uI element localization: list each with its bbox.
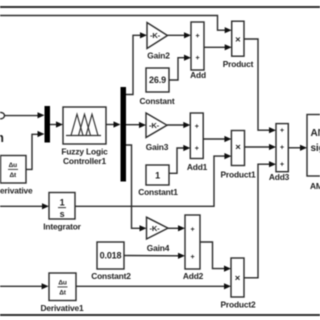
block Add1 (190, 113, 203, 159)
svg-text:Add2: Add2 (183, 271, 204, 281)
svg-text:-K-: -K- (150, 31, 161, 40)
svg-text:1: 1 (60, 198, 65, 208)
svg-text:Gain4: Gain4 (147, 243, 170, 253)
block Derivative1 (49, 273, 76, 301)
svg-text:s: s (60, 209, 65, 219)
demux bar2 (121, 87, 127, 182)
svg-text:26.9: 26.9 (149, 75, 166, 85)
block Constant2 (97, 242, 124, 269)
wire into Derivative1 (0, 285, 43, 287)
block Product2 (231, 258, 244, 297)
arrowhead into Integrator (42, 203, 49, 209)
svg-text:Product: Product (223, 59, 254, 69)
arrowhead into Product1 in1 (224, 136, 231, 142)
svg-text:+: + (196, 33, 200, 40)
plus signs Add3 (280, 128, 284, 169)
arrowhead into Product2 in2 (224, 283, 231, 289)
arrowhead into Add in1 (184, 32, 191, 38)
arrowhead into Add3 in2 (269, 144, 276, 150)
wire to Product in1 (0, 16, 227, 31)
svg-text:Δu: Δu (9, 162, 18, 169)
text Integrator 1/s (60, 198, 65, 220)
svg-text:-K-: -K- (149, 121, 160, 130)
svg-text:Gain3: Gain3 (146, 142, 169, 152)
wire Demux out1 to Gain2 (126, 35, 142, 94)
arrowhead into Add2 in2 (178, 253, 185, 259)
wire Derivative1 to Product2 in2 (76, 285, 226, 287)
plus signs Add (196, 33, 200, 62)
svg-text:+: + (196, 55, 200, 62)
svg-text:Gain2: Gain2 (147, 51, 170, 61)
wire Gain2 to Add in1 (168, 34, 186, 36)
svg-text:Product2: Product2 (220, 300, 256, 310)
arrowhead into Add in2 (184, 55, 191, 61)
svg-text:+: + (280, 128, 284, 135)
svg-text:+: + (195, 146, 199, 153)
plus signs Add2 (191, 226, 195, 260)
svg-text:Add1: Add1 (187, 162, 208, 172)
wire Integrator to Product1 in2 (75, 156, 226, 206)
svg-text:Constant2: Constant2 (91, 271, 131, 281)
svg-text:0.018: 0.018 (100, 250, 122, 260)
block Fuzzy Logic Controller1 (63, 107, 106, 144)
svg-text:Derivative1: Derivative1 (40, 303, 84, 313)
wire Gain3 to Add1 in1 (167, 124, 185, 126)
arrowhead into Gain2 (140, 32, 147, 38)
svg-text:Derivative: Derivative (0, 185, 33, 195)
block Constant 26.9 (146, 68, 169, 92)
svg-text:×: × (235, 142, 241, 153)
block Add3 (276, 124, 288, 172)
arrowhead into Gain3 (139, 122, 146, 128)
svg-text:Product1: Product1 (220, 169, 256, 179)
gain Gain3 (146, 113, 167, 138)
svg-text:Add: Add (190, 70, 206, 80)
arrowhead into Product in1 (225, 27, 232, 33)
arrowhead into Fuzzy (56, 121, 63, 127)
block Derivative (1, 156, 27, 184)
wire Constant to Add in2 (169, 58, 186, 80)
svg-text:Constant1: Constant1 (138, 187, 178, 197)
wire Add to Product in2 (204, 46, 226, 48)
svg-text:Add3: Add3 (269, 172, 290, 182)
svg-text:AM: AM (311, 128, 320, 139)
block AM signal (307, 115, 320, 177)
arrowhead into Add3 in3 (269, 161, 276, 167)
wire Demux out2 to Gain3 (126, 124, 141, 126)
arrowhead into Derivative1 (42, 283, 49, 289)
svg-text:1: 1 (155, 170, 160, 180)
mux bar1 (45, 106, 51, 143)
wire Mux to Fuzzy Logic Controller1 (50, 124, 58, 126)
svg-text:n: n (0, 130, 4, 145)
wire Add3 to AM signal block (288, 147, 301, 149)
wire Product2 to Add3 in3 (244, 164, 271, 278)
svg-text:Δu: Δu (58, 280, 67, 287)
text Derivative fraction (9, 162, 18, 179)
arrowhead into Product in2 (225, 44, 232, 50)
wire Add1 to Product1 in1 (203, 138, 226, 140)
wire Gain4 to Add2 in1 (168, 227, 180, 229)
arrowhead into Add2 in1 (178, 225, 185, 231)
arrowhead into Add1 in2 (183, 145, 190, 151)
arrowhead into Add3 in1 (269, 127, 276, 133)
wire into Integrator (0, 205, 44, 207)
input port oval (0, 112, 5, 118)
wire Demux out3 to Gain4 (126, 145, 141, 228)
arrowhead into demux (114, 121, 121, 127)
svg-text:sig: sig (311, 143, 320, 154)
block Product1 (231, 131, 244, 166)
wire Constant1 to Add1 in2 (169, 148, 185, 173)
arrowhead into Product2 in1 (224, 266, 231, 272)
arrowhead into Add1 in1 (183, 122, 190, 128)
svg-text:Integrator: Integrator (43, 222, 81, 232)
block Product (232, 21, 244, 56)
plus signs Add1 (195, 123, 199, 152)
wire Derivative to Mux in2 (26, 134, 39, 169)
svg-text:×: × (235, 273, 241, 284)
membership functions inside Fuzzy block (66, 114, 101, 135)
block Add (191, 22, 204, 70)
wire input port to Mux (4, 115, 39, 117)
svg-text:Δt: Δt (10, 172, 18, 179)
svg-text:-K-: -K- (149, 224, 160, 233)
wire Product1 to Add3 in2 (245, 146, 271, 148)
wire Product to Add3 in1 (244, 39, 271, 130)
svg-text:+: + (191, 226, 195, 233)
arrowhead into Gain4 (140, 225, 147, 231)
wire Constant2 to Add2 in2 (124, 255, 180, 257)
arrowhead into mux in1 (38, 112, 45, 118)
svg-text:Constant: Constant (139, 96, 174, 106)
text Derivative1 fraction (58, 280, 67, 297)
svg-text:+: + (195, 123, 199, 130)
svg-text:AM si: AM si (310, 181, 320, 191)
svg-text:Fuzzy Logic: Fuzzy Logic (61, 146, 108, 156)
svg-text:×: × (235, 34, 241, 45)
arrowhead into mux in2 (38, 131, 45, 137)
block Constant1 (146, 165, 169, 185)
block Integrator (49, 193, 75, 220)
svg-text:Δt: Δt (59, 290, 67, 297)
gain Gain4 (147, 217, 169, 239)
svg-text:Controller1: Controller1 (63, 156, 107, 166)
wire Add2 to Product2 in1 (200, 242, 226, 269)
wire Fuzzy Logic Controller1 to Demux (106, 124, 116, 126)
block Add2 (185, 215, 200, 269)
svg-text:+: + (280, 162, 284, 169)
arrowhead into Product1 in2 (224, 153, 231, 159)
gain Gain2 (147, 23, 168, 49)
svg-text:+: + (191, 254, 195, 261)
svg-text:+: + (280, 145, 284, 152)
arrowhead into AM signal (300, 145, 307, 151)
